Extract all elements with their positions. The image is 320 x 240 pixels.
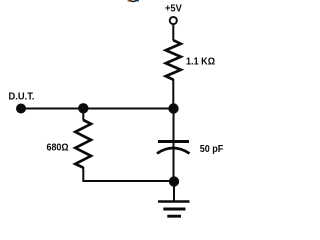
svg-text:680Ω: 680Ω <box>47 143 69 154</box>
wire capacitor to node C <box>173 145 175 182</box>
label 680Ω <box>47 143 69 154</box>
wire +5V terminal to resistor 1.1K <box>172 24 174 40</box>
wire resistor 1.1K to node A <box>172 79 174 109</box>
label 50 pF <box>200 143 224 155</box>
svg-text:50 pF: 50 pF <box>200 143 224 155</box>
resistor 680 ohm <box>75 120 91 168</box>
wire node B to resistor 680 <box>82 109 84 121</box>
node C junction dot <box>169 176 179 186</box>
node A junction dot <box>168 103 178 113</box>
terminal D.U.T. (filled dot) <box>16 104 26 114</box>
wire D.U.T. to node A <box>21 108 173 110</box>
cropped caption glyph fragment <box>128 0 139 2</box>
wire resistor 680 to bottom rail <box>83 167 174 181</box>
capacitor 50pF top plate <box>158 140 189 143</box>
resistor 1.1 Kohm <box>166 40 181 79</box>
terminal +5V (open circle) <box>170 17 177 24</box>
label +5V <box>165 3 182 15</box>
svg-text:+5V: +5V <box>165 3 182 15</box>
label D.U.T. <box>9 92 35 103</box>
wire node A to capacitor 50pF <box>173 109 175 147</box>
wire node C to ground <box>173 182 175 202</box>
svg-text:D.U.T.: D.U.T. <box>9 92 35 103</box>
capacitor 50pF bottom plate (curved) <box>157 148 190 154</box>
junction node B (680 branch) <box>78 103 88 113</box>
ground <box>158 202 190 217</box>
svg-text:1.1 KΩ: 1.1 KΩ <box>186 56 215 68</box>
label 1.1 KΩ <box>186 56 215 68</box>
